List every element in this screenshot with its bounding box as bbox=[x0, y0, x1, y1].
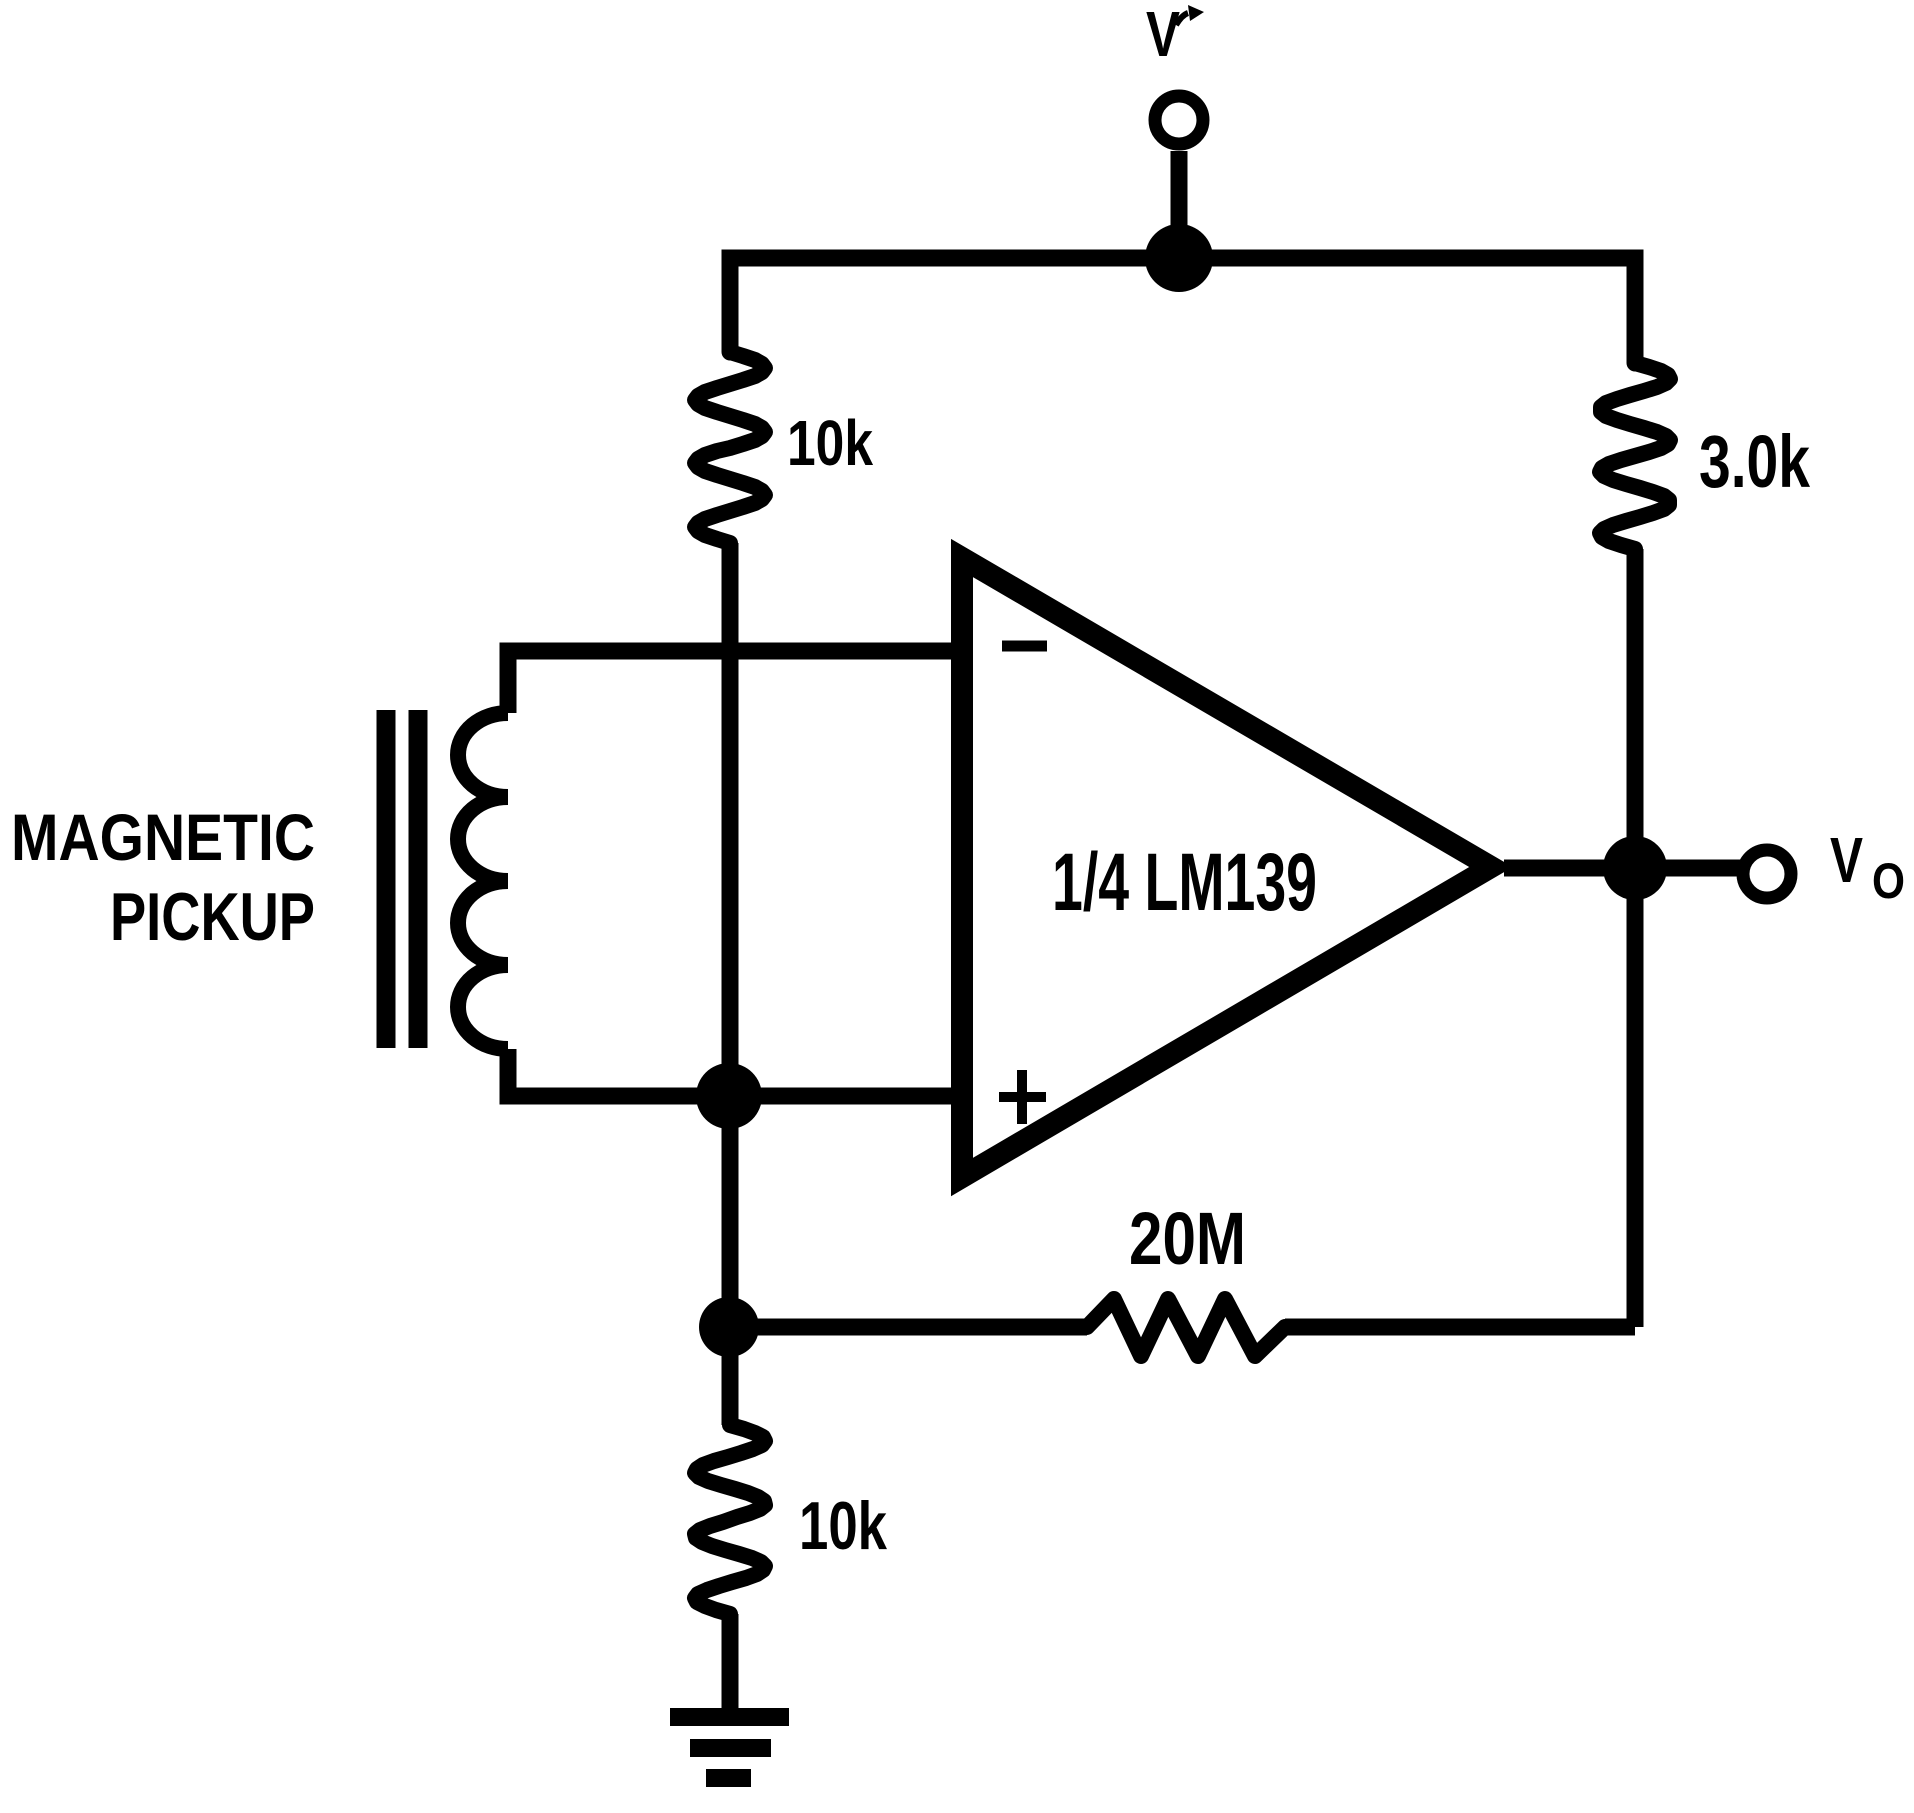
svg-text:20M: 20M bbox=[1129, 1197, 1246, 1280]
magnetic core bars bbox=[386, 710, 418, 1048]
wire top rail bbox=[730, 258, 1635, 363]
node V+ junction dot bbox=[1145, 224, 1213, 292]
node V+ terminal circle bbox=[1155, 96, 1203, 144]
op-amp minus input sign bbox=[1002, 641, 1047, 652]
wire bottom vertical lower (resistor to ground) bbox=[722, 1614, 739, 1717]
inductor L1 magnetic pickup coil bbox=[458, 713, 508, 1049]
wire inverting input (coil top to op-amp) bbox=[508, 651, 951, 713]
resistor R4 10k (bottom) bbox=[695, 1425, 765, 1614]
ground bbox=[670, 1717, 789, 1778]
node Vo label bbox=[1830, 824, 1905, 909]
svg-text:PICKUP: PICKUP bbox=[110, 879, 315, 955]
wire 20M right segment bbox=[1285, 1319, 1635, 1336]
wire V+ stub bbox=[1171, 151, 1188, 258]
svg-text:MAGNETIC: MAGNETIC bbox=[11, 800, 315, 874]
op-amp plus input sign bbox=[999, 1070, 1046, 1124]
resistor R3 20M feedback bbox=[1087, 1299, 1285, 1356]
svg-text:10k: 10k bbox=[799, 1488, 887, 1564]
node V+ label bbox=[1146, 0, 1204, 70]
wire left vertical (through minus-input cross down to 20M node) bbox=[722, 543, 739, 1327]
node output junction dot bbox=[1603, 836, 1667, 900]
wire bottom vertical upper (node to resistor) bbox=[722, 1327, 739, 1425]
label MAGNETIC PICKUP bbox=[11, 800, 315, 955]
svg-text:V: V bbox=[1146, 0, 1180, 70]
node junction dot plus-input bbox=[696, 1063, 762, 1129]
resistor R2 3.0k (top right) bbox=[1600, 363, 1670, 549]
svg-text:O: O bbox=[1872, 853, 1905, 909]
svg-text:10k: 10k bbox=[787, 407, 873, 479]
op-amp U1 triangle bbox=[962, 558, 1491, 1177]
wire non-inverting input (coil bottom to op-amp) bbox=[508, 1049, 951, 1096]
node Vo terminal circle bbox=[1743, 850, 1791, 898]
resistor R1 10k (top left) bbox=[695, 352, 765, 543]
svg-text:V: V bbox=[1830, 824, 1863, 896]
wire output (op-amp apex to terminal) bbox=[1504, 860, 1740, 877]
svg-text:1/4 LM139: 1/4 LM139 bbox=[1052, 837, 1317, 928]
svg-text:3.0k: 3.0k bbox=[1699, 420, 1811, 503]
wire 20M left segment bbox=[729, 1319, 1087, 1336]
wire right vertical (3.0k bottom through output node to 20M corner) bbox=[1627, 549, 1644, 1327]
node junction dot 20M-left bbox=[699, 1297, 759, 1357]
